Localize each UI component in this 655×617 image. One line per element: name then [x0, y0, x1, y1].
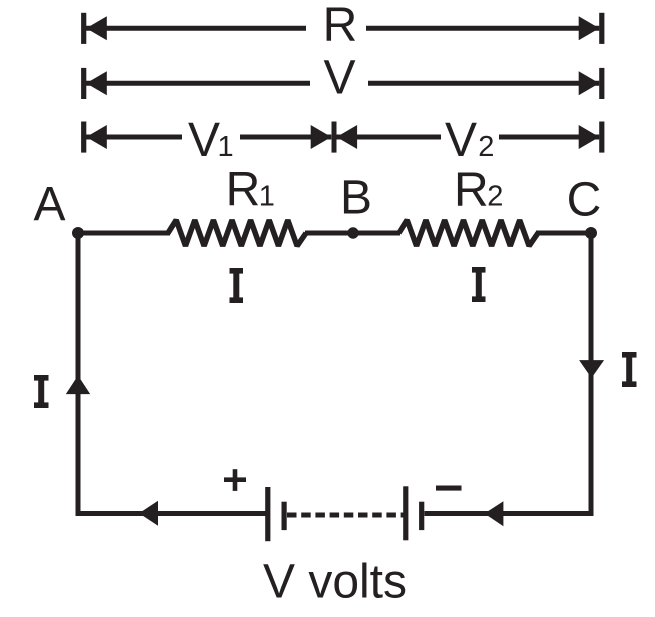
- current arrow left on bottom-right wire: [485, 501, 504, 526]
- dimension line V1: [81, 122, 331, 153]
- wire R1 to B: [305, 231, 400, 236]
- svg-text:V: V: [445, 114, 477, 167]
- svg-text:2: 2: [478, 131, 494, 163]
- label R1: [226, 163, 275, 216]
- wire R2 to C: [536, 231, 591, 236]
- current label I right (I-beam glyph): [622, 352, 637, 387]
- battery left short plate: [282, 502, 287, 530]
- dimension line V (total voltage span): [81, 68, 604, 99]
- svg-text:R: R: [454, 164, 489, 217]
- current arrow up on left wire: [66, 376, 90, 395]
- dimension line R (total resistance span): [81, 13, 604, 44]
- svg-text:V volts: V volts: [263, 556, 407, 609]
- svg-text:V: V: [188, 114, 220, 167]
- battery minus sign: [436, 486, 462, 491]
- battery right long plate: [403, 486, 408, 540]
- svg-text:R: R: [226, 163, 261, 216]
- current arrow left on bottom-left wire: [139, 501, 158, 526]
- svg-text:V: V: [323, 52, 355, 105]
- battery left long plate (+): [265, 487, 270, 541]
- node B junction dot: [347, 227, 358, 238]
- svg-text:1: 1: [218, 131, 234, 163]
- bottom wire left segment: [78, 511, 266, 516]
- dimension line V2: [337, 122, 605, 153]
- right vertical wire (C down to bottom): [589, 233, 594, 516]
- label V2: [445, 114, 494, 167]
- current label I left (I-beam glyph): [34, 375, 49, 408]
- node A junction dot: [72, 227, 84, 239]
- svg-text:C: C: [567, 173, 602, 226]
- resistor R2 zigzag: [399, 220, 538, 246]
- battery right short plate (-): [419, 502, 424, 530]
- middle tick: [332, 122, 337, 153]
- bottom wire right segment: [425, 511, 592, 516]
- current arrow down on right wire: [579, 360, 604, 378]
- wire A to R1: [78, 231, 170, 236]
- dashed link between cells: [287, 513, 404, 518]
- svg-text:2: 2: [487, 181, 503, 213]
- svg-text:B: B: [340, 172, 372, 225]
- label R2: [454, 164, 503, 217]
- current label I under R2 (I-beam glyph): [472, 267, 486, 302]
- battery plus sign: [224, 469, 246, 491]
- node C junction dot: [585, 227, 597, 239]
- svg-text:R: R: [323, 0, 358, 52]
- current label I under R1 (I-beam glyph): [230, 268, 244, 303]
- resistor R1 zigzag: [168, 220, 306, 246]
- svg-text:1: 1: [259, 180, 275, 212]
- left vertical wire (A down to bottom): [76, 233, 81, 516]
- svg-text:A: A: [33, 178, 65, 231]
- label V1: [188, 114, 234, 167]
